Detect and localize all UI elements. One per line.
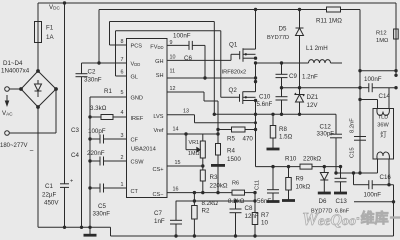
resistor R6 8.2k <box>232 190 245 195</box>
node C2 branch on left rail <box>80 226 83 229</box>
resistor R12 1M <box>394 29 399 39</box>
svg-text:6: 6 <box>121 70 124 76</box>
node C16 branch <box>352 171 355 174</box>
resistor R4 150 to ground <box>217 134 219 144</box>
svg-text:R9: R9 <box>296 176 304 183</box>
wire pin13 LVS staircase to divider <box>167 114 195 116</box>
svg-text:R8: R8 <box>279 126 287 133</box>
node lamp top-left <box>358 98 361 101</box>
lamp TLD 36W body <box>373 109 394 160</box>
node pin7 riser junction <box>97 61 100 64</box>
svg-text:56nF: 56nF <box>257 198 271 205</box>
arrow Vac <box>6 95 8 104</box>
wire ground bus <box>89 97 91 227</box>
svg-text:12: 12 <box>170 86 176 92</box>
svg-text:1MΩ: 1MΩ <box>188 151 200 157</box>
svg-text:R1: R1 <box>104 88 112 95</box>
wire C16 left riser <box>353 173 355 185</box>
wire pin14 Vref row <box>167 133 218 135</box>
node VR1 wiper riser <box>184 132 187 135</box>
svg-text:14: 14 <box>173 127 179 133</box>
zener DZ1 12V <box>299 88 301 95</box>
lamp bottom filament <box>377 152 389 159</box>
wire C2 top to pin7 Vdd <box>82 62 127 64</box>
terminal AC input bottom <box>5 131 10 136</box>
svg-text:SH: SH <box>156 73 164 79</box>
svg-text:VDC: VDC <box>49 4 60 11</box>
wire lamp top-right pin <box>388 88 390 109</box>
svg-text:R7: R7 <box>261 212 269 219</box>
svg-text:470: 470 <box>243 136 254 143</box>
svg-text:11: 11 <box>170 69 176 75</box>
wire bridge bottom to ground rail <box>37 107 39 227</box>
svg-text:LVS: LVS <box>153 114 163 120</box>
svg-text:C8: C8 <box>245 205 253 212</box>
svg-text:GND: GND <box>131 96 143 102</box>
svg-text:Q2: Q2 <box>229 87 238 94</box>
capacitor C1 22uF 450V electrolytic <box>64 3 66 184</box>
svg-text:C12: C12 <box>320 124 332 131</box>
svg-text:R6: R6 <box>232 181 239 187</box>
svg-text:C11: C11 <box>255 180 261 190</box>
svg-text:1.2nF: 1.2nF <box>302 74 318 81</box>
svg-text:180~277V: 180~277V <box>0 143 28 149</box>
svg-text:IREF: IREF <box>131 116 144 122</box>
svg-text:220kΩ: 220kΩ <box>210 183 228 190</box>
svg-text:CSW: CSW <box>131 160 145 166</box>
ground symbol main <box>89 227 91 235</box>
svg-text:VAC: VAC <box>2 110 13 117</box>
svg-text:灯: 灯 <box>380 130 387 139</box>
node C1 on left rail <box>63 226 66 229</box>
wire AC2 up to bridge right corner <box>55 89 57 133</box>
svg-text:16: 16 <box>173 187 179 193</box>
capacitor C11 56nF <box>272 167 274 190</box>
svg-text:1500: 1500 <box>227 156 241 163</box>
lamp top filament <box>377 109 389 116</box>
inductor L1 2mH <box>309 60 331 63</box>
svg-text:GL: GL <box>131 75 138 81</box>
capacitor C10 5.6nF <box>280 86 283 89</box>
fuse F1 <box>37 3 39 22</box>
svg-text:10: 10 <box>170 55 176 61</box>
svg-text:1: 1 <box>121 182 124 188</box>
svg-text:FVDD: FVDD <box>150 45 163 51</box>
wire pin16 CS- row <box>167 192 232 194</box>
wire pin10 GH to Q1 gate <box>167 59 231 61</box>
svg-text:R10: R10 <box>285 156 297 163</box>
diode D6 BYD77D <box>323 167 325 173</box>
svg-text:100pF: 100pF <box>88 128 106 135</box>
svg-text:220nF: 220nF <box>87 150 105 157</box>
svg-text:1N4007x4: 1N4007x4 <box>1 68 30 75</box>
svg-text:4: 4 <box>121 110 124 116</box>
capacitor C15 8.2nF on lamp-left bus <box>354 136 366 138</box>
svg-text:8.2kΩ: 8.2kΩ <box>202 200 219 207</box>
capacitor C9 1.2nF <box>281 63 283 74</box>
svg-text:F1: F1 <box>46 25 54 32</box>
svg-text:15: 15 <box>175 160 181 166</box>
wire fuse to bridge <box>37 43 39 72</box>
svg-text:·维库－: ·维库－ <box>356 210 400 226</box>
node C12 bottom <box>334 171 337 174</box>
wire bottom ground rail <box>111 235 394 237</box>
svg-text:100nF: 100nF <box>364 192 382 199</box>
wire top rail right corner down through R12 <box>395 3 397 75</box>
wire Q2 source current rail <box>214 113 336 115</box>
node R12 bottom <box>394 69 397 72</box>
capacitor C3 100pF on pin3 CF <box>88 137 91 140</box>
wire lamp bottom-left pin to node <box>377 159 379 173</box>
svg-text:D6: D6 <box>319 198 327 205</box>
wire DZ1/C14 node rail <box>282 87 361 89</box>
wire ground rail step down <box>110 227 112 236</box>
wire Vdc top rail <box>38 2 396 4</box>
svg-text:C15: C15 <box>350 147 356 158</box>
svg-text:8.2nF: 8.2nF <box>350 118 356 133</box>
svg-text:22µF: 22µF <box>42 192 56 199</box>
wire right bus from R11 down lamp-left column <box>359 10 361 174</box>
svg-text:L1 2mH: L1 2mH <box>306 45 328 52</box>
svg-text:C9: C9 <box>289 73 297 80</box>
svg-text:C1: C1 <box>45 183 53 190</box>
svg-text:R5: R5 <box>227 136 235 143</box>
resistor R1 3.3k on pin4 IREF <box>88 115 91 118</box>
svg-text:VDD: VDD <box>131 62 141 68</box>
svg-text:C6: C6 <box>184 55 192 62</box>
svg-text:Q1: Q1 <box>229 42 238 49</box>
wire feedback rail R10 row <box>255 114 257 166</box>
svg-text:BYD77D: BYD77D <box>267 35 289 41</box>
svg-text:5.6nF: 5.6nF <box>257 101 273 108</box>
svg-text:VR1: VR1 <box>189 140 200 146</box>
resistor R3 220k <box>202 158 204 170</box>
svg-text:10: 10 <box>261 220 268 227</box>
svg-text:UBA2014: UBA2014 <box>131 147 157 153</box>
wire bottom-left ground rail <box>38 226 111 228</box>
diode D5 BYD77D <box>299 10 301 29</box>
resistor R11 1M <box>327 7 341 12</box>
wire half-bridge midpoint to L1 <box>254 61 257 64</box>
wire CS- lower row <box>176 200 255 202</box>
svg-text:36W: 36W <box>377 123 389 129</box>
node R12 branch <box>358 69 361 72</box>
node gnd bus on left rail <box>88 226 91 229</box>
capacitor C8 12nF <box>235 201 237 209</box>
bridge rectifier D1-D4 <box>21 71 56 107</box>
svg-text:CS−: CS− <box>152 192 163 198</box>
svg-text:Vref: Vref <box>153 128 163 134</box>
node Q1 drain on W1 <box>254 8 257 11</box>
node bottom right <box>392 200 395 203</box>
IC U1 UBA2014 body <box>127 39 168 198</box>
svg-text:DZ1: DZ1 <box>307 94 319 101</box>
wire L1 to resonant branch <box>331 62 343 64</box>
capacitor C6 100nF bootstrap <box>188 41 190 50</box>
svg-text:C7: C7 <box>154 210 162 217</box>
wire pin6 GL route over IC to Q2 gate <box>116 75 127 77</box>
svg-text:CT: CT <box>131 189 139 195</box>
svg-text:10kΩ: 10kΩ <box>296 184 311 191</box>
capacitor C12 330pF <box>335 114 337 134</box>
resistor R2 8.2k <box>193 193 195 206</box>
svg-text:C16: C16 <box>380 174 392 181</box>
svg-text:220kΩ: 220kΩ <box>303 156 321 163</box>
svg-text:12nF: 12nF <box>245 213 259 220</box>
svg-text:330pF: 330pF <box>317 131 335 138</box>
node D5 on W1 <box>298 8 301 11</box>
svg-text:3.3kΩ: 3.3kΩ <box>90 105 107 112</box>
svg-text:1MΩ: 1MΩ <box>376 38 389 44</box>
potentiometer VR1 1M <box>202 134 204 141</box>
svg-text:R11 1MΩ: R11 1MΩ <box>316 18 342 25</box>
wire pin8 PCS route over IC to sense rail <box>110 44 127 46</box>
wire C16 right to corner drop <box>372 184 393 186</box>
svg-text:8: 8 <box>121 39 124 45</box>
svg-text:1.5Ω: 1.5Ω <box>279 134 293 141</box>
wire pin15 CS+ to VR1/R3 node <box>167 165 203 167</box>
wire lamp top-left pin <box>360 99 378 101</box>
resistor R8 1.5ohm current sense <box>272 114 274 125</box>
resistor R5 470 <box>218 129 232 131</box>
svg-text:100nF: 100nF <box>173 33 191 40</box>
capacitor C5 330nF on pin1 CT <box>88 186 91 189</box>
svg-text:13: 13 <box>183 109 189 115</box>
svg-text:C10: C10 <box>259 94 271 101</box>
capacitor C13 6.8nF <box>340 167 342 179</box>
svg-text:CS+: CS+ <box>152 167 163 173</box>
transistor Q1 IRF820 <box>239 51 241 59</box>
diode inside bridge <box>37 80 39 84</box>
svg-text:C5: C5 <box>98 203 106 210</box>
svg-text:GH: GH <box>155 59 163 65</box>
svg-text:330nF: 330nF <box>84 77 102 84</box>
wire W1 Vdd riser to top distribution <box>98 10 100 64</box>
svg-text:C13: C13 <box>336 198 348 205</box>
svg-text:PCS: PCS <box>131 44 143 50</box>
svg-text:R2: R2 <box>202 208 210 215</box>
svg-text:TLD: TLD <box>378 115 389 121</box>
svg-text:1nF: 1nF <box>154 218 165 225</box>
wire lamp bottom-right pin down <box>388 159 390 185</box>
wire pin5 GND stub to ground bus <box>90 96 127 98</box>
svg-text:1A: 1A <box>46 34 54 41</box>
svg-text:3: 3 <box>121 133 124 139</box>
svg-text:R12: R12 <box>376 31 387 37</box>
svg-text:7: 7 <box>121 57 124 63</box>
wire pin12 staircase to R5/R4 node <box>167 91 204 93</box>
capacitor C7 1nF <box>175 201 177 221</box>
transistor Q2 IRF820 <box>239 94 241 102</box>
resistor R9 10k <box>288 167 290 178</box>
capacitor C16 100nF across lamp bottom <box>354 184 369 186</box>
svg-text:450V: 450V <box>44 200 59 207</box>
node C15 bottom <box>358 171 361 174</box>
svg-text:2: 2 <box>121 155 124 161</box>
resistor R10 220k <box>300 164 312 169</box>
capacitor C4 220nF on pin2 CSW <box>88 159 91 162</box>
svg-text:R4: R4 <box>227 148 235 155</box>
wire R4 bar to CS- row <box>217 165 219 192</box>
wire C6 to SH node <box>204 45 206 78</box>
svg-text:~: ~ <box>30 148 34 155</box>
terminal AC input top <box>5 87 10 92</box>
svg-text:C2: C2 <box>88 69 96 76</box>
wire pin9 FVdd to C6 <box>167 44 189 46</box>
svg-text:330nF: 330nF <box>93 211 111 218</box>
svg-text:D5: D5 <box>279 26 287 33</box>
wire stub at bottom right <box>354 201 394 203</box>
svg-text:100nF: 100nF <box>364 76 382 83</box>
svg-text:5: 5 <box>121 90 124 96</box>
svg-text:R3: R3 <box>210 174 218 181</box>
svg-text:IRF820x2: IRF820x2 <box>222 69 247 75</box>
svg-text:+: + <box>70 179 73 185</box>
svg-text:12V: 12V <box>307 102 319 109</box>
capacitor C14 100nF across lamp top <box>360 87 369 89</box>
svg-text:C4: C4 <box>71 152 79 159</box>
node Vdc junction at top of C1 branch <box>63 1 66 4</box>
resistor R7 10 <box>252 213 258 225</box>
wire pin11 SH to half-bridge midpoint <box>167 77 256 79</box>
svg-text:D1~D4: D1~D4 <box>3 60 23 67</box>
wire R6 right down to R7 <box>254 193 256 213</box>
wire R11/R12 junction link <box>360 70 396 72</box>
svg-text:CF: CF <box>131 138 139 144</box>
svg-text:C3: C3 <box>71 127 79 134</box>
capacitor C2 330nF <box>81 63 83 74</box>
